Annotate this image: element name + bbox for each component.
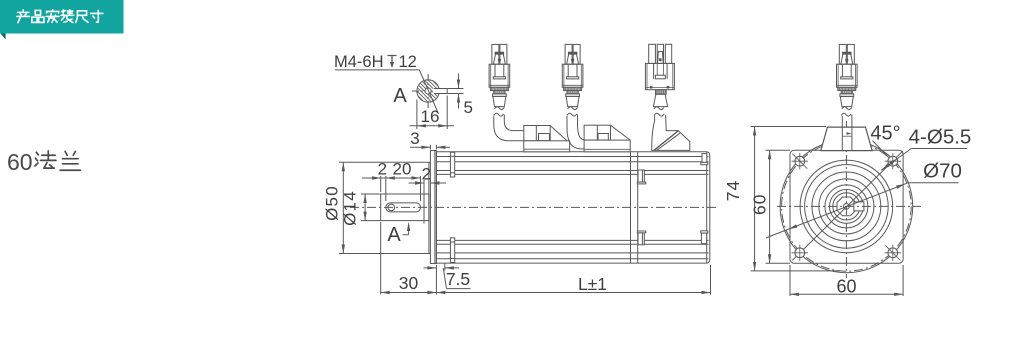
front centerline horizontal <box>777 205 921 207</box>
connector plug 1 <box>489 44 510 116</box>
dim 16 <box>416 100 418 130</box>
rear cover screw mid right <box>701 231 708 233</box>
svg-text:2: 2 <box>378 160 387 179</box>
svg-text:60: 60 <box>749 194 769 215</box>
svg-text:3: 3 <box>410 129 419 148</box>
cable gland block 2 <box>584 125 610 140</box>
key cross-section front <box>854 202 864 211</box>
dim line 2 and 20 <box>362 177 421 179</box>
rear cover screw top right <box>702 154 707 163</box>
dim 5 <box>447 88 463 90</box>
dim 2 20 ext lines <box>380 176 382 192</box>
svg-text:2: 2 <box>422 165 431 184</box>
hole diagonal ticks <box>792 154 807 169</box>
svg-text:5: 5 <box>464 98 473 117</box>
svg-text:Ø50: Ø50 <box>323 185 342 221</box>
shaft octagon <box>837 197 856 216</box>
diagonal 45 deg line <box>792 151 903 261</box>
flange rings <box>800 160 893 253</box>
connector 3 boot <box>653 94 667 106</box>
svg-text:Ø70: Ø70 <box>923 160 962 183</box>
dim 74 <box>754 127 756 271</box>
svg-text:60: 60 <box>7 149 33 175</box>
cable 4 <box>841 116 843 150</box>
dim 2 right <box>409 182 424 184</box>
svg-text:20: 20 <box>393 160 412 179</box>
svg-text:60: 60 <box>836 277 856 297</box>
cable elbow 1 <box>494 116 524 141</box>
rear bolt head top <box>638 170 644 182</box>
leader M4 <box>335 69 420 71</box>
body rib lines bottom <box>436 239 708 241</box>
bolt hole 2 <box>888 156 898 166</box>
svg-text:45°: 45° <box>870 123 900 145</box>
key cross-section <box>433 89 447 94</box>
dim 7.5 <box>444 264 446 271</box>
side view centerline <box>350 206 719 208</box>
dim D50 <box>342 162 344 253</box>
diagonal D70 leader <box>766 183 908 238</box>
shaft <box>381 194 429 221</box>
svg-text:4-Ø5.5: 4-Ø5.5 <box>909 126 972 149</box>
flange square <box>790 150 903 263</box>
banner fold <box>1 34 6 40</box>
svg-text:12: 12 <box>399 53 417 71</box>
title banner <box>0 0 124 34</box>
svg-text:7.5: 7.5 <box>446 269 470 289</box>
motor body outline <box>436 152 709 263</box>
bolt circle (dash-dot) <box>782 142 912 272</box>
banner text 产品安装尺寸 <box>22 10 24 11</box>
dim D14 <box>364 194 366 221</box>
45 deg leader <box>873 141 889 158</box>
svg-text:L±1: L±1 <box>578 274 607 294</box>
pilot boss <box>428 162 430 253</box>
bolt hole 1 <box>795 156 805 166</box>
connector plug 2 <box>562 44 583 116</box>
connector mount trapezoid <box>821 127 872 151</box>
leader M4 through section <box>419 70 438 114</box>
dim line 30 and L <box>381 292 711 294</box>
bolt hole 4 <box>888 248 898 258</box>
rear cover inner edge <box>706 153 708 263</box>
connector plug 4 (front view) <box>837 44 858 116</box>
dim 60 bottom <box>789 265 791 296</box>
front through-bolt top <box>450 152 454 177</box>
center hole <box>844 204 850 210</box>
svg-text:M4-6H: M4-6H <box>334 53 384 71</box>
bolt hole 3 <box>795 248 805 258</box>
svg-text:A: A <box>393 85 407 107</box>
front view body circle <box>780 140 913 273</box>
connector plug 3 (power) <box>649 44 656 63</box>
label 法兰 glyphs <box>36 152 38 155</box>
shaft step line <box>423 180 425 224</box>
dim 3 <box>429 145 431 150</box>
svg-text:Ø14: Ø14 <box>341 190 360 226</box>
keyway slot <box>386 203 421 212</box>
cable elbow 2 <box>567 116 584 149</box>
dim D14 ext lines <box>361 193 381 195</box>
body rib lines top <box>436 156 708 158</box>
section A crosshair <box>427 74 429 110</box>
dim 30 / L ext lines <box>380 222 382 295</box>
leader 4-D5.5 <box>881 149 911 171</box>
flange plate <box>430 151 436 264</box>
front through-bolt bottom <box>450 238 454 263</box>
rear bolt head bottom <box>638 233 644 245</box>
svg-text:A: A <box>387 224 401 246</box>
cable gland block 1 <box>524 126 550 141</box>
cable wedge 3 <box>652 115 690 150</box>
dim 60 left <box>769 150 771 263</box>
keyway circle <box>388 204 395 211</box>
dim D50 ext lines <box>339 161 429 163</box>
front centerline vertical <box>845 121 847 278</box>
svg-text:30: 30 <box>399 273 419 293</box>
svg-text:16: 16 <box>421 107 440 126</box>
M4 tapped hole <box>425 88 431 94</box>
rear endbell joint <box>630 152 632 263</box>
svg-text:74: 74 <box>723 180 743 201</box>
